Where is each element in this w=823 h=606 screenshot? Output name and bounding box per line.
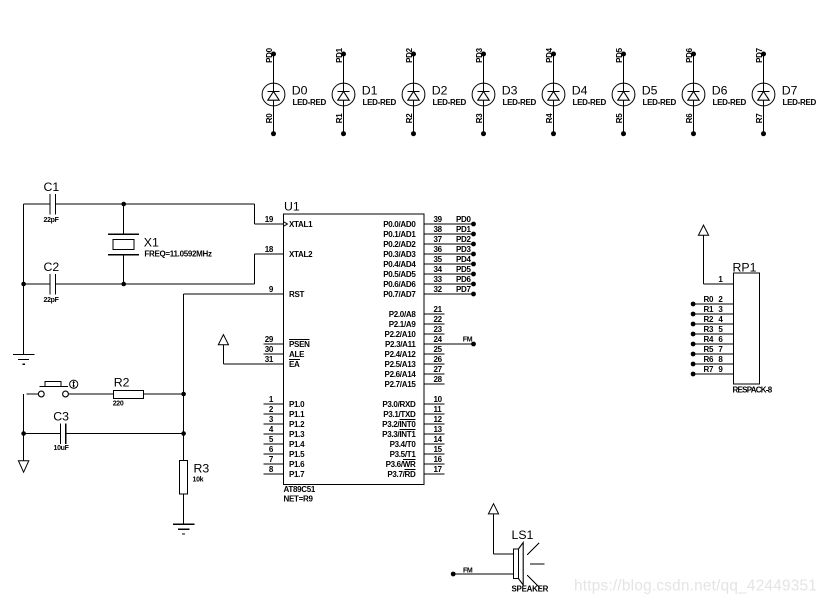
U1 pin 9 RST wire (184, 285, 305, 299)
U1 pin 32 P0.7/AD7 wire to net PD7 (383, 285, 476, 299)
svg-text:D7: D7 (782, 83, 798, 97)
svg-text:P1.7: P1.7 (289, 470, 305, 479)
svg-text:FM: FM (463, 336, 473, 343)
svg-text:P1.3: P1.3 (289, 430, 305, 439)
resistor R3 10k (180, 461, 210, 494)
svg-text:R3: R3 (704, 325, 714, 334)
svg-text:PD3: PD3 (456, 245, 472, 254)
svg-text:R5: R5 (704, 345, 714, 354)
U1 pin 11 P3.1/TXD stub (383, 405, 444, 419)
wire C3 left (24, 433, 61, 435)
svg-text:11: 11 (434, 405, 443, 414)
svg-text:P1.0: P1.0 (289, 400, 305, 409)
svg-text:10k: 10k (193, 476, 204, 483)
svg-text:RST: RST (289, 290, 305, 299)
svg-text:P1.1: P1.1 (289, 410, 305, 419)
U1 pin 4 P1.3 wire (264, 425, 306, 439)
svg-text:P0.5/AD5: P0.5/AD5 (383, 270, 416, 279)
svg-text:10: 10 (434, 395, 443, 404)
U1 pin 5 P1.4 wire (264, 435, 306, 449)
junction node crystal bottom (121, 282, 126, 287)
svg-text:X1: X1 (144, 236, 159, 250)
power terminal (VCC arrow) at EA (218, 335, 228, 364)
svg-text:P2.3/A11: P2.3/A11 (385, 340, 416, 349)
U1 pin 7 P1.6 wire (264, 455, 306, 469)
wire R3 to ground (183, 494, 185, 524)
svg-text:R5: R5 (615, 113, 624, 123)
U1 pin 1 P1.0 wire (264, 395, 306, 409)
svg-text:AT89C51: AT89C51 (284, 485, 316, 494)
svg-text:17: 17 (434, 465, 443, 474)
svg-text:28: 28 (434, 375, 443, 384)
svg-text:PSEN: PSEN (289, 340, 310, 349)
svg-text:NET=R9: NET=R9 (284, 495, 314, 504)
svg-text:R4: R4 (545, 113, 554, 123)
U1 pin 12 P3.2/INT0 stub (382, 415, 444, 429)
svg-text:PD5: PD5 (456, 265, 472, 274)
junction node RST/C3 (181, 431, 186, 436)
svg-text:P3.5/T1: P3.5/T1 (390, 450, 417, 459)
resistor pack RP1 RESPACK-8 (733, 260, 773, 394)
svg-text:FREQ=11.0592MHz: FREQ=11.0592MHz (144, 249, 212, 258)
ground (earth) under C1/C2 (13, 355, 35, 365)
svg-text:P3.7/RD: P3.7/RD (387, 470, 416, 479)
svg-text:220: 220 (113, 401, 124, 408)
speaker LS1 (512, 528, 549, 593)
svg-text:PD5: PD5 (615, 47, 624, 63)
svg-text:P3.0/RXD: P3.0/RXD (382, 400, 416, 409)
svg-text:P2.5/A13: P2.5/A13 (385, 360, 417, 369)
wire XTAL1 net: C1 to U1 pin 19 (24, 204, 255, 224)
RP1 pin 9 wire, net R7 (691, 365, 734, 376)
svg-text:P0.6/AD6: P0.6/AD6 (383, 280, 416, 289)
svg-text:P0.3/AD3: P0.3/AD3 (383, 250, 416, 259)
svg-text:R2: R2 (114, 376, 130, 390)
capacitor C2 22pF (44, 260, 60, 304)
svg-text:U1: U1 (284, 200, 300, 214)
power terminal (VCC arrow) at speaker (488, 504, 513, 554)
svg-text:PD2: PD2 (456, 235, 472, 244)
svg-text:36: 36 (434, 245, 443, 254)
U1 pin 19 XTAL1 wire (255, 215, 313, 229)
svg-text:R6: R6 (685, 113, 694, 123)
svg-text:15: 15 (434, 445, 443, 454)
svg-text:LED-RED: LED-RED (783, 98, 817, 107)
svg-text:LED-RED: LED-RED (713, 98, 747, 107)
U1 pin 38 P0.1/AD1 wire to net PD1 (383, 225, 476, 239)
svg-text:32: 32 (434, 285, 443, 294)
svg-text:31: 31 (265, 355, 274, 364)
U1 pin 16 P3.6/WR stub (386, 455, 445, 469)
ground terminal arrow (down) (18, 461, 28, 473)
svg-text:LED-RED: LED-RED (433, 98, 467, 107)
RP1 pin 2 wire, net R0 (691, 295, 734, 306)
svg-text:PD0: PD0 (456, 215, 472, 224)
svg-text:D6: D6 (712, 83, 728, 97)
svg-text:RESPACK-8: RESPACK-8 (733, 386, 773, 395)
svg-text:PD1: PD1 (456, 225, 472, 234)
junction node XTAL1/crystal top (121, 202, 126, 207)
svg-text:D0: D0 (292, 83, 308, 97)
svg-text:LED-RED: LED-RED (363, 98, 397, 107)
svg-text:PD3: PD3 (475, 47, 484, 63)
svg-text:37: 37 (434, 235, 443, 244)
svg-text:P1.5: P1.5 (289, 450, 305, 459)
U1 pin 6 P1.5 wire (264, 445, 306, 459)
U1 pin 28 P2.7/A15 stub (385, 375, 445, 389)
svg-text:LED-RED: LED-RED (293, 98, 327, 107)
U1 pin 36 P0.3/AD3 wire to net PD3 (383, 245, 476, 259)
svg-text:P0.2/AD2: P0.2/AD2 (383, 240, 416, 249)
svg-text:PD2: PD2 (405, 47, 414, 63)
capacitor C1 22pF (44, 180, 60, 224)
svg-text:FM: FM (463, 567, 473, 574)
RP1 pin 5 wire, net R3 (691, 325, 734, 336)
svg-text:R4: R4 (704, 335, 714, 344)
LED D2 (LED-RED) with net labels PD2 and R2 (402, 47, 466, 136)
op-chip U1 AT89C51 body (284, 200, 425, 504)
node FM to speaker (451, 567, 513, 576)
U1 pin 2 P1.1 wire (264, 405, 306, 419)
svg-text:13: 13 (434, 425, 443, 434)
LED D1 (LED-RED) with net labels PD1 and R1 (332, 47, 396, 136)
U1 pin 34 P0.5/AD5 wire to net PD5 (383, 265, 476, 279)
svg-text:P2.2/A10: P2.2/A10 (385, 330, 417, 339)
svg-text:R3: R3 (475, 113, 484, 123)
svg-text:LED-RED: LED-RED (573, 98, 607, 107)
RP1 pin 8 wire, net R6 (691, 355, 734, 366)
svg-text:R2: R2 (405, 113, 414, 123)
power terminal (VCC arrow) at RP1 (698, 225, 708, 235)
svg-text:R2: R2 (704, 315, 714, 324)
svg-text:26: 26 (434, 355, 443, 364)
svg-text:PD7: PD7 (755, 47, 764, 63)
svg-text:C1: C1 (44, 180, 60, 194)
svg-text:P3.2/INT0: P3.2/INT0 (382, 420, 416, 429)
wire left vertical rail C1-C2-ground (23, 204, 25, 355)
U1 pin 37 P0.2/AD2 wire to net PD2 (383, 235, 476, 249)
RP1 pin 6 wire, net R4 (691, 335, 734, 346)
svg-text:P1.6: P1.6 (289, 460, 305, 469)
svg-text:P3.3/INT1: P3.3/INT1 (382, 430, 416, 439)
U1 pin 10 P3.0/RXD stub (382, 395, 444, 409)
svg-text:R0: R0 (265, 113, 274, 123)
LED D7 (LED-RED) with net labels PD7 and R7 (752, 47, 816, 136)
svg-text:D2: D2 (432, 83, 448, 97)
U1 pin 33 P0.6/AD6 wire to net PD6 (383, 275, 476, 289)
svg-text:P3.1/TXD: P3.1/TXD (383, 410, 416, 419)
U1 pin 29 PSEN wire (264, 335, 311, 349)
svg-text:25: 25 (434, 345, 443, 354)
svg-text:39: 39 (434, 215, 443, 224)
LED D4 (LED-RED) with net labels PD4 and R4 (542, 47, 606, 136)
svg-text:R7: R7 (755, 113, 764, 123)
wire R2 right to RST net (143, 393, 183, 395)
svg-text:ALE: ALE (289, 350, 305, 359)
svg-text:RP1: RP1 (733, 260, 757, 274)
capacitor C3 10uF (53, 410, 69, 453)
svg-text:P2.6/A14: P2.6/A14 (385, 370, 417, 379)
svg-text:LED-RED: LED-RED (643, 98, 677, 107)
svg-text:P3.6/WR: P3.6/WR (386, 460, 416, 469)
U1 pin 18 XTAL2 wire (255, 245, 313, 259)
svg-text:16: 16 (434, 455, 443, 464)
U1 pin 23 P2.2/A10 stub (385, 325, 445, 339)
RP1 pin 4 wire, net R2 (691, 315, 734, 326)
svg-text:https://blog.csdn.net/qq_42449: https://blog.csdn.net/qq_42449351 (574, 578, 817, 595)
U1 pin 14 P3.4/T0 stub (390, 435, 445, 449)
U1 pin 30 ALE wire (264, 345, 306, 359)
svg-text:PD7: PD7 (456, 285, 472, 294)
U1 pin 22 P2.1/A9 stub (389, 315, 445, 329)
svg-text:23: 23 (434, 325, 443, 334)
svg-text:12: 12 (434, 415, 443, 424)
svg-text:P1.2: P1.2 (289, 420, 305, 429)
svg-text:27: 27 (434, 365, 443, 374)
crystal X1 FREQ=11.0592MHz (108, 204, 212, 284)
svg-text:R1: R1 (704, 305, 714, 314)
U1 pin 13 P3.3/INT1 stub (382, 425, 444, 439)
wire C3 right to RST net (66, 433, 184, 435)
svg-text:33: 33 (434, 275, 443, 284)
LED D3 (LED-RED) with net labels PD3 and R3 (472, 47, 536, 136)
svg-text:LS1: LS1 (512, 528, 534, 542)
svg-text:D5: D5 (642, 83, 658, 97)
LED D6 (LED-RED) with net labels PD6 and R6 (682, 47, 746, 136)
svg-text:PD6: PD6 (685, 47, 694, 63)
svg-text:24: 24 (434, 335, 443, 344)
svg-text:PD0: PD0 (265, 47, 274, 63)
U1 pin 39 P0.0/AD0 wire to net PD0 (383, 215, 476, 229)
svg-text:LED-RED: LED-RED (503, 98, 537, 107)
U1 pin 27 P2.6/A14 stub (385, 365, 445, 379)
svg-text:P1.4: P1.4 (289, 440, 305, 449)
svg-text:XTAL2: XTAL2 (289, 250, 313, 259)
RP1 pin 3 wire, net R1 (691, 305, 734, 316)
wire RST net vertical (183, 294, 185, 461)
svg-text:R7: R7 (704, 365, 714, 374)
svg-text:XTAL1: XTAL1 (289, 220, 313, 229)
U1 pin 24 P2.3/A11 wire to net FM (385, 335, 476, 349)
svg-text:38: 38 (434, 225, 443, 234)
svg-text:D4: D4 (572, 83, 588, 97)
svg-text:PD4: PD4 (545, 47, 554, 63)
LED D5 (LED-RED) with net labels PD5 and R5 (612, 47, 676, 136)
svg-text:EA: EA (289, 360, 300, 369)
U1 pin 25 P2.4/A12 stub (385, 345, 445, 359)
svg-text:R3: R3 (194, 461, 210, 475)
svg-text:P2.4/A12: P2.4/A12 (385, 350, 417, 359)
U1 pin 15 P3.5/T1 stub (390, 445, 445, 459)
U1 pin 21 P2.0/A8 stub (389, 305, 445, 319)
svg-text:R0: R0 (704, 295, 714, 304)
svg-text:P0.1/AD1: P0.1/AD1 (383, 230, 416, 239)
svg-text:18: 18 (265, 245, 274, 254)
svg-text:P0.7/AD7: P0.7/AD7 (383, 290, 416, 299)
junction node left rail / C2 (21, 282, 26, 287)
svg-text:P2.7/A15: P2.7/A15 (385, 380, 417, 389)
svg-text:C2: C2 (44, 260, 60, 274)
svg-text:35: 35 (434, 255, 443, 264)
svg-text:D1: D1 (362, 83, 378, 97)
svg-text:10uF: 10uF (54, 445, 70, 452)
LED D0 (LED-RED) with net labels PD0 and R0 (262, 47, 326, 136)
U1 pin 35 P0.4/AD4 wire to net PD4 (383, 255, 476, 269)
svg-text:PD1: PD1 (335, 47, 344, 63)
junction node C3 left (21, 431, 26, 436)
U1 pin 17 P3.7/RD stub (387, 465, 444, 479)
svg-text:29: 29 (265, 335, 274, 344)
svg-text:P0.4/AD4: P0.4/AD4 (383, 260, 416, 269)
svg-text:R6: R6 (704, 355, 714, 364)
junction node RST/R2 (181, 392, 186, 397)
svg-text:21: 21 (434, 305, 443, 314)
svg-text:22pF: 22pF (44, 217, 60, 224)
svg-text:22: 22 (434, 315, 443, 324)
svg-text:P0.0/AD0: P0.0/AD0 (383, 220, 416, 229)
ground (earth) under R3 (173, 524, 194, 534)
wire XTAL2 net: C2 to U1 pin 18 (24, 254, 255, 284)
svg-text:19: 19 (265, 215, 274, 224)
svg-text:C3: C3 (53, 410, 69, 424)
svg-text:30: 30 (265, 345, 274, 354)
svg-text:PD6: PD6 (456, 275, 472, 284)
U1 pin 3 P1.2 wire (264, 415, 306, 429)
wire button left leg down to ground arrow (23, 394, 25, 461)
U1 pin 31 EA wire (223, 355, 300, 369)
U1 pin 8 P1.7 wire (264, 465, 306, 479)
svg-text:34: 34 (434, 265, 443, 274)
svg-text:22pF: 22pF (44, 297, 60, 304)
svg-text:P2.1/A9: P2.1/A9 (389, 320, 417, 329)
svg-text:P2.0/A8: P2.0/A8 (389, 310, 417, 319)
svg-text:SPEAKER: SPEAKER (512, 585, 549, 594)
push button (reset switch) (27, 380, 114, 397)
U1 pin 26 P2.5/A13 stub (385, 355, 445, 369)
resistor R2 220 (113, 376, 144, 408)
svg-text:P3.4/T0: P3.4/T0 (390, 440, 417, 449)
svg-text:14: 14 (434, 435, 443, 444)
svg-text:PD4: PD4 (456, 255, 472, 264)
RP1 pin 1 wire to power (704, 235, 734, 284)
svg-text:D3: D3 (502, 83, 518, 97)
svg-text:R1: R1 (335, 113, 344, 123)
RP1 pin 7 wire, net R5 (691, 345, 734, 356)
